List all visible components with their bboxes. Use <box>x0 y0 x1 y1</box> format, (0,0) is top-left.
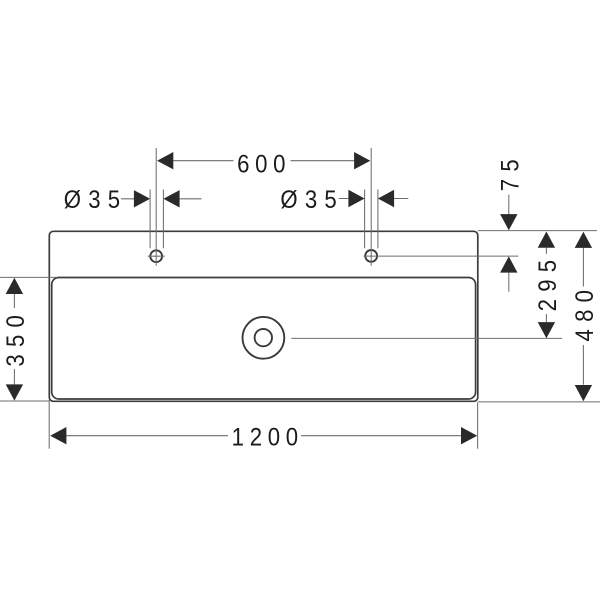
faucet hole left crosshair <box>148 148 165 266</box>
dim 600 text <box>237 151 291 179</box>
dim d35 left tail lines <box>121 198 202 200</box>
svg-text:1200: 1200 <box>232 424 304 452</box>
dim 75 arrow up <box>500 256 517 272</box>
faucet hole right crosshair and extension line to right <box>364 148 519 266</box>
dim 480 arrow down <box>575 385 592 401</box>
svg-text:480: 480 <box>572 283 600 342</box>
hole edge extension lines right (d35) <box>365 190 378 249</box>
dim 600 arrow right <box>354 152 370 169</box>
dim 295 line segments <box>545 248 547 322</box>
extension line bottom edge to right <box>478 401 600 403</box>
washbasin inner basin rim <box>52 278 476 400</box>
dim 480 text rotated <box>572 283 600 342</box>
dim 480 line segments <box>582 248 584 385</box>
dim 1200 arrow left <box>50 427 66 444</box>
faucet hole left circle <box>150 250 162 262</box>
extension line bottom to left <box>0 400 50 402</box>
dim 350 arrow down <box>6 384 23 400</box>
extension line bottom right vertical <box>477 403 479 449</box>
extension line top edge to right <box>478 230 597 232</box>
extension line inner basin top to left <box>0 276 57 278</box>
washbasin outer outline <box>49 231 478 401</box>
dim 350 text rotated <box>3 308 31 367</box>
svg-text:75: 75 <box>497 152 525 191</box>
dim 1200 arrow right <box>461 427 477 444</box>
dim 600 arrow left <box>157 152 173 169</box>
svg-text:350: 350 <box>3 308 31 367</box>
dim d35 left arrow left-pointing <box>163 190 179 207</box>
dim 350 line segments <box>13 294 15 384</box>
drain outer circle <box>243 317 285 359</box>
dim d35 left arrow right-pointing <box>134 190 150 207</box>
svg-text:295: 295 <box>535 253 563 312</box>
dim 480 arrow up <box>575 232 592 248</box>
svg-text:Ø35: Ø35 <box>280 187 344 215</box>
dim 75 line segments <box>508 195 510 292</box>
dim d35 right arrow right-pointing <box>348 190 364 207</box>
dim 75 arrow down <box>500 214 517 230</box>
dim 75 text rotated <box>497 152 525 191</box>
svg-text:600: 600 <box>237 151 291 179</box>
drain inner circle <box>255 329 272 346</box>
extension line bottom left vertical <box>48 400 50 449</box>
drain extension line to right <box>291 337 562 339</box>
dim 295 text rotated <box>535 253 563 312</box>
dim 295 arrow down <box>538 322 555 338</box>
faucet hole right circle <box>365 250 377 262</box>
svg-text:Ø35: Ø35 <box>64 187 128 215</box>
dim 1200 line <box>66 435 461 437</box>
dim 600 line <box>173 160 354 162</box>
dim 1200 text <box>232 424 304 452</box>
dim 350 arrow up <box>6 278 23 294</box>
hole edge extension lines left (d35) <box>150 190 163 249</box>
dim d35 right tail lines <box>339 198 409 200</box>
dim d35 right arrow left-pointing <box>378 190 394 207</box>
dim d35 right text <box>280 187 344 215</box>
dim d35 left text <box>64 187 128 215</box>
dim 295 arrow up <box>538 232 555 248</box>
